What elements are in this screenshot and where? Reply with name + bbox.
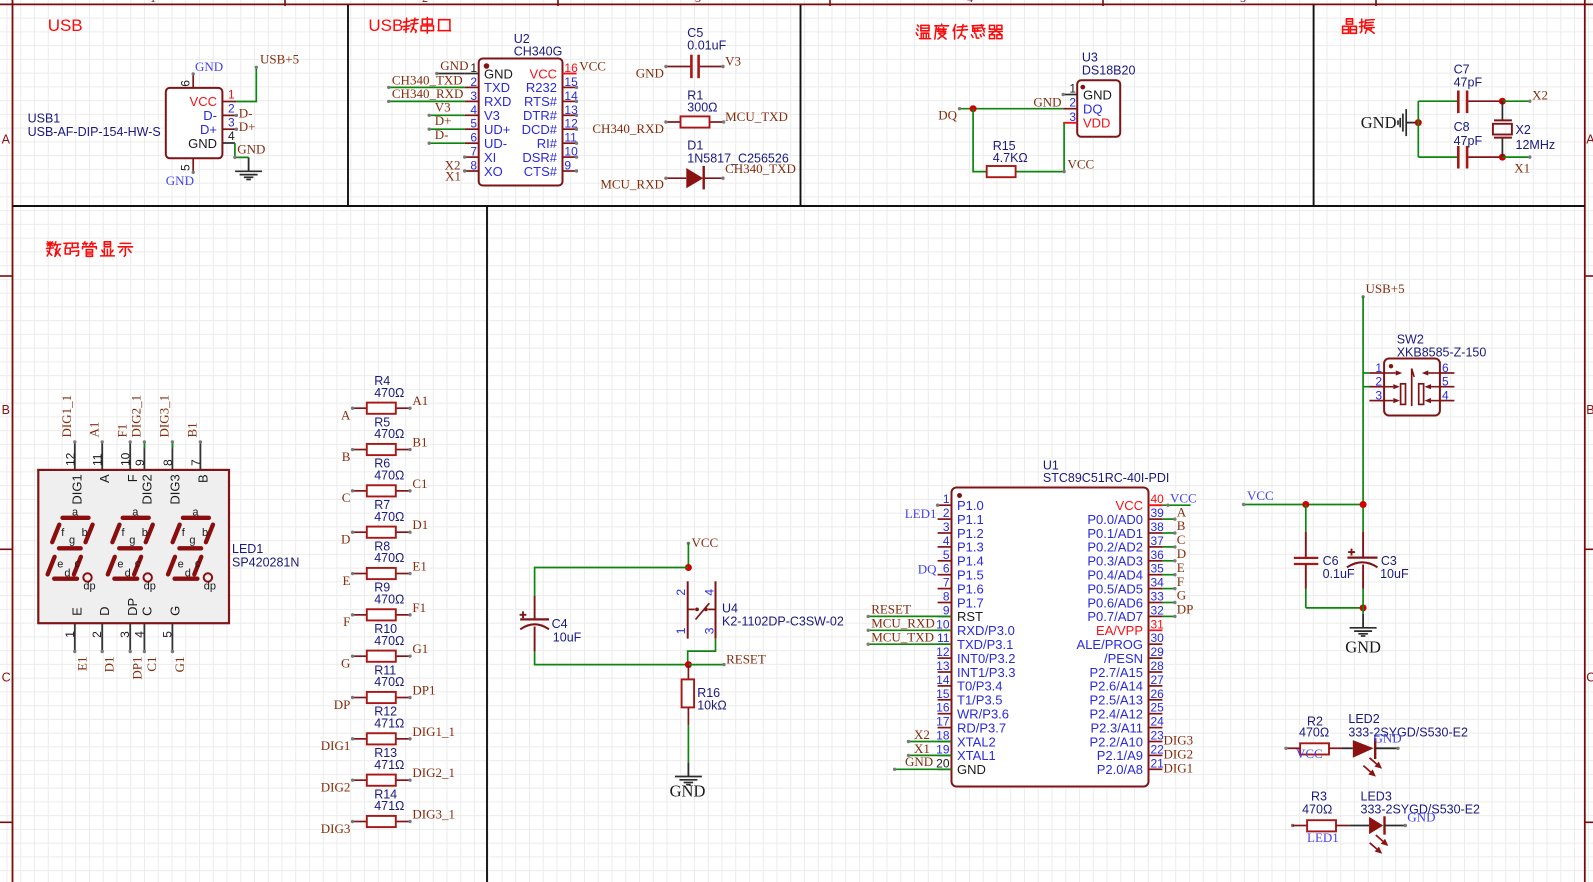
svg-text:DQ: DQ: [1083, 101, 1103, 116]
net label DIG2 at U1 pin22: [1164, 746, 1194, 761]
svg-text:e: e: [57, 558, 63, 570]
svg-text:A: A: [2, 133, 11, 147]
svg-text:32: 32: [1151, 603, 1165, 617]
svg-text:470Ω: 470Ω: [374, 675, 404, 689]
svg-text:10uF: 10uF: [1380, 567, 1409, 581]
switch SW2 XKB8585-Z-150: [1369, 333, 1486, 416]
ground symbol USB section: [235, 157, 262, 179]
svg-text:7: 7: [943, 576, 950, 590]
svg-text:4: 4: [470, 103, 477, 117]
svg-text:B: B: [2, 403, 10, 417]
svg-text:GND: GND: [195, 59, 223, 74]
svg-text:5: 5: [470, 117, 477, 131]
net labels display top pins: [59, 395, 200, 438]
svg-text:P1.2: P1.2: [957, 526, 984, 541]
net label D: [341, 531, 350, 546]
net flag GND at LED2: [1374, 730, 1402, 745]
svg-text:4: 4: [943, 534, 950, 548]
svg-text:11: 11: [91, 453, 105, 466]
svg-text:A1: A1: [412, 393, 428, 408]
svg-text:c: c: [75, 558, 81, 570]
net flag VCC above U4: [687, 535, 719, 550]
net label D-: [239, 105, 253, 120]
svg-text:DQ: DQ: [938, 107, 957, 122]
resistor R14: [351, 787, 412, 827]
svg-text:7: 7: [189, 459, 203, 466]
svg-text:34: 34: [1151, 576, 1165, 590]
svg-text:RST: RST: [957, 609, 983, 624]
svg-text:P1.7: P1.7: [957, 595, 984, 610]
svg-text:d: d: [64, 567, 70, 579]
svg-text:USB+5: USB+5: [260, 52, 299, 67]
wire X2 stub: [1502, 100, 1531, 103]
svg-text:1: 1: [674, 627, 688, 634]
net label C1: [412, 476, 427, 491]
LED LED2: [1342, 712, 1468, 777]
frame row letters: [2, 133, 1593, 685]
resistor R16: [682, 665, 727, 726]
net label CH340_TXD at D1: [725, 161, 796, 176]
capacitor C5: [664, 26, 726, 78]
svg-text:CH340_RXD: CH340_RXD: [592, 121, 664, 136]
net label DIG1_1: [412, 724, 455, 739]
svg-text:G: G: [341, 655, 350, 670]
svg-text:3: 3: [1375, 389, 1382, 403]
resistor R5: [351, 415, 412, 455]
net label X1 at U2: [445, 168, 461, 183]
svg-text:B: B: [195, 474, 210, 483]
svg-text:6: 6: [179, 80, 193, 87]
svg-text:B: B: [1586, 403, 1593, 417]
wire segment net D at U1: [1162, 559, 1176, 562]
net label VCC at U2 pin16: [579, 59, 606, 74]
wire VCC to U3 pin3: [1062, 123, 1065, 174]
svg-text:3: 3: [470, 89, 477, 103]
wire VCC at U1 pin40: [1162, 504, 1190, 507]
svg-text:26: 26: [1151, 687, 1165, 701]
svg-text:USB-AF-DIP-154-HW-S: USB-AF-DIP-154-HW-S: [28, 125, 161, 139]
svg-text:5: 5: [1442, 375, 1449, 389]
svg-text:ALE/PROG: ALE/PROG: [1077, 637, 1143, 652]
svg-text:C1: C1: [144, 657, 159, 672]
junction VCC node U4: [685, 564, 692, 571]
svg-text:10kΩ: 10kΩ: [697, 699, 727, 713]
net label CH340_RXD at R1: [592, 121, 664, 136]
net label F: [343, 614, 350, 629]
svg-text:C: C: [139, 607, 154, 616]
net flag GND bottom of USB1: [166, 171, 195, 189]
svg-text:20: 20: [936, 756, 950, 770]
svg-text:XKB8585-Z-150: XKB8585-Z-150: [1397, 345, 1487, 359]
svg-text:RESET: RESET: [871, 601, 911, 616]
svg-text:3: 3: [1069, 110, 1076, 124]
title temperature sensor: [916, 24, 1002, 39]
svg-text:C1: C1: [412, 476, 427, 491]
svg-text:GND: GND: [1033, 95, 1061, 110]
svg-text:GND: GND: [905, 754, 933, 769]
wire DQ net: [958, 107, 1063, 110]
svg-text:471Ω: 471Ω: [374, 716, 404, 730]
svg-text:P0.0/AD0: P0.0/AD0: [1087, 512, 1143, 527]
svg-text:VCC: VCC: [190, 94, 217, 109]
svg-text:9: 9: [133, 459, 147, 466]
svg-text:470Ω: 470Ω: [374, 592, 404, 606]
svg-text:7: 7: [470, 145, 477, 159]
svg-text:c: c: [135, 558, 141, 570]
svg-text:36: 36: [1151, 548, 1165, 562]
svg-text:D1: D1: [687, 139, 703, 153]
svg-text:4: 4: [967, 0, 973, 5]
net label DQ at U1 pin6: [918, 562, 937, 577]
svg-text:B1: B1: [185, 422, 200, 437]
svg-text:D: D: [1177, 546, 1186, 561]
net label MCU_TXD at R1: [725, 109, 788, 124]
svg-text:GND: GND: [636, 66, 664, 81]
svg-text:P0.3/AD3: P0.3/AD3: [1087, 554, 1143, 569]
net label D+: [239, 119, 256, 134]
svg-text:DP1: DP1: [412, 683, 435, 698]
svg-text:P2.2/A10: P2.2/A10: [1090, 734, 1144, 749]
svg-text:USB+5: USB+5: [1366, 281, 1405, 296]
svg-text:P1.5: P1.5: [957, 568, 984, 583]
svg-text:UD-: UD-: [484, 136, 507, 151]
resistor R13: [351, 746, 412, 786]
svg-text:/PESN: /PESN: [1104, 651, 1143, 666]
svg-text:3: 3: [695, 0, 701, 5]
svg-text:25: 25: [1151, 701, 1165, 715]
svg-text:C: C: [342, 490, 351, 505]
wire segment net B at U1: [1162, 531, 1176, 534]
svg-text:CH340_RXD: CH340_RXD: [392, 86, 464, 101]
svg-text:9: 9: [564, 159, 571, 173]
ground symbol right: [1350, 614, 1377, 636]
svg-text:18: 18: [936, 729, 950, 743]
net label A1: [412, 393, 428, 408]
svg-text:a: a: [192, 507, 199, 519]
svg-text:DSR#: DSR#: [522, 150, 557, 165]
junction VCC main: [1360, 501, 1367, 508]
net label DIG3 at U1 pin23: [1164, 733, 1194, 748]
wire C6 branch lower: [1306, 589, 1363, 608]
svg-text:2: 2: [90, 631, 104, 638]
junction X1 node: [1499, 154, 1506, 161]
svg-text:VCC: VCC: [1247, 488, 1274, 503]
svg-text:STC89C51RC-40I-PDI: STC89C51RC-40I-PDI: [1043, 471, 1169, 485]
svg-text:DP: DP: [125, 598, 140, 616]
resistor R7: [351, 498, 412, 538]
net label VCC at R2: [1284, 746, 1322, 761]
svg-text:B: B: [342, 449, 351, 464]
net label D- at U2: [435, 127, 449, 142]
svg-text:471Ω: 471Ω: [374, 799, 404, 813]
svg-text:2: 2: [674, 589, 688, 596]
svg-text:470Ω: 470Ω: [1302, 803, 1332, 817]
svg-text:22: 22: [1151, 742, 1165, 756]
svg-text:G: G: [167, 606, 182, 616]
svg-text:P2.1/A9: P2.1/A9: [1097, 748, 1143, 763]
IC U2 CH340G: [465, 32, 579, 186]
svg-text:3: 3: [118, 631, 132, 638]
junction VCC C6 branch: [1302, 501, 1309, 508]
svg-text:X1: X1: [1514, 160, 1530, 175]
svg-text:CTS#: CTS#: [524, 164, 558, 179]
capacitor C8: [1454, 120, 1503, 169]
net label CH340_TXD: [392, 72, 463, 87]
wire reset stub: [688, 663, 725, 666]
wire segment net E at U1: [1162, 573, 1176, 576]
svg-text:D: D: [97, 607, 112, 616]
junction DQ: [970, 105, 977, 112]
svg-text:R3: R3: [1311, 789, 1327, 803]
net label F1: [412, 600, 426, 615]
resistor R10: [351, 622, 412, 662]
wire DQ to R15: [973, 109, 987, 172]
svg-text:K2-1102DP-C3SW-02: K2-1102DP-C3SW-02: [722, 614, 844, 628]
svg-text:0.01uF: 0.01uF: [687, 38, 726, 52]
net label GND at C5: [636, 66, 664, 81]
svg-text:4: 4: [132, 631, 146, 638]
svg-text:DCD#: DCD#: [522, 122, 558, 137]
svg-text:P2.7/A15: P2.7/A15: [1090, 665, 1144, 680]
svg-text:DIG2: DIG2: [321, 779, 351, 794]
resistor R1: [664, 88, 725, 127]
svg-text:DTR#: DTR#: [523, 108, 558, 123]
svg-text:C4: C4: [552, 617, 568, 631]
wire U2 pin3: [387, 100, 465, 103]
capacitor C3 polarized: [1347, 532, 1409, 589]
svg-text:CH340_TXD: CH340_TXD: [392, 72, 463, 87]
svg-text:1: 1: [470, 61, 477, 75]
svg-text:21: 21: [1151, 756, 1165, 770]
svg-text:P2.6/A14: P2.6/A14: [1090, 679, 1144, 694]
pushbutton U4 K2-1102DP: [674, 581, 844, 638]
wire stub D+: [235, 128, 238, 131]
wire USB1 pin4 to ground: [233, 143, 248, 159]
svg-text:UD+: UD+: [484, 122, 510, 137]
svg-text:A: A: [97, 474, 112, 483]
svg-text:P0.5/AD5: P0.5/AD5: [1087, 581, 1143, 596]
net label GND at U1 pin20: [905, 754, 933, 769]
wire VCC to C4 branch: [535, 568, 689, 597]
svg-text:14: 14: [936, 673, 950, 687]
net label G1: [412, 641, 428, 656]
net label USB+5 right: [1361, 281, 1404, 298]
LED LED3: [1349, 789, 1480, 853]
svg-text:a: a: [72, 507, 79, 519]
net label DIG2_1: [412, 765, 455, 780]
svg-text:5: 5: [179, 164, 193, 171]
net label G at U1: [1177, 588, 1186, 603]
svg-text:C: C: [2, 670, 11, 684]
connector USB1: [28, 74, 237, 172]
svg-text:E1: E1: [412, 559, 426, 574]
svg-text:1: 1: [1375, 361, 1382, 375]
wire segment net A at U1: [1162, 517, 1176, 520]
svg-text:e: e: [178, 558, 184, 570]
svg-text:4.7KΩ: 4.7KΩ: [993, 151, 1028, 165]
svg-text:4: 4: [702, 589, 716, 596]
svg-text:GND: GND: [1361, 113, 1397, 132]
svg-text:16: 16: [564, 61, 578, 75]
resistor R3: [1293, 789, 1350, 831]
svg-text:D+: D+: [239, 119, 256, 134]
svg-text:10: 10: [936, 617, 950, 631]
resistor R9: [351, 581, 412, 621]
wire R16 to ground: [687, 725, 689, 762]
net label X1 at U1: [914, 741, 930, 756]
diode D1: [664, 139, 789, 190]
resistor R12: [351, 705, 412, 745]
net label D1: [412, 517, 428, 532]
svg-text:P0.7/AD7: P0.7/AD7: [1087, 609, 1143, 624]
svg-text:F: F: [1177, 574, 1184, 589]
svg-text:DP: DP: [334, 697, 351, 712]
svg-text:19: 19: [936, 742, 950, 756]
svg-text:XTAL2: XTAL2: [957, 734, 996, 749]
svg-text:2: 2: [470, 75, 477, 89]
svg-text:2: 2: [943, 506, 950, 520]
svg-text:VCC: VCC: [692, 535, 719, 550]
net label F at U1: [1177, 574, 1184, 589]
net label G: [341, 655, 350, 670]
net label GND at crystal: [1361, 113, 1397, 132]
svg-text:F: F: [343, 614, 350, 629]
junction GND node right: [1360, 604, 1367, 611]
svg-text:D-: D-: [239, 105, 253, 120]
wire VCC down: [687, 543, 689, 567]
svg-text:DIG3: DIG3: [1164, 733, 1194, 748]
svg-text:23: 23: [1151, 729, 1165, 743]
svg-text:39: 39: [1151, 506, 1165, 520]
svg-text:P0.4/AD4: P0.4/AD4: [1087, 568, 1143, 583]
svg-text:2: 2: [422, 0, 428, 5]
svg-text:USB: USB: [48, 16, 83, 35]
net label A at U1: [1177, 504, 1187, 519]
svg-text:P1.1: P1.1: [957, 512, 984, 527]
svg-text:470Ω: 470Ω: [374, 468, 404, 482]
net flag GND right: [1345, 637, 1381, 656]
svg-text:6: 6: [1442, 361, 1449, 375]
svg-text:DS18B20: DS18B20: [1082, 64, 1136, 78]
svg-text:DIG2_1: DIG2_1: [129, 395, 144, 438]
net label X2 at U2: [445, 157, 461, 172]
svg-text:MCU_TXD: MCU_TXD: [725, 109, 788, 124]
svg-text:d: d: [125, 567, 131, 579]
svg-text:XO: XO: [484, 164, 503, 179]
svg-text:D+: D+: [200, 122, 217, 137]
svg-text:8: 8: [470, 159, 477, 173]
svg-text:0.1uF: 0.1uF: [1323, 567, 1355, 581]
net labels display bottom pins: [74, 657, 187, 680]
svg-text:XTAL1: XTAL1: [957, 748, 996, 763]
svg-text:RI#: RI#: [537, 136, 558, 151]
svg-text:C8: C8: [1454, 120, 1470, 134]
svg-text:P1.3: P1.3: [957, 540, 984, 555]
junction crystal gnd: [1415, 119, 1422, 126]
svg-text:16: 16: [936, 701, 950, 715]
svg-text:G1: G1: [172, 657, 187, 673]
svg-text:P1.6: P1.6: [957, 581, 984, 596]
svg-text:T1/P3.5: T1/P3.5: [957, 693, 1003, 708]
wire VCC rail right: [1242, 503, 1363, 506]
wire U2 pin5: [428, 128, 465, 131]
svg-text:300Ω: 300Ω: [687, 101, 717, 115]
svg-text:DIG1: DIG1: [1164, 760, 1194, 775]
svg-text:P2.0/A8: P2.0/A8: [1097, 762, 1143, 777]
net label USB+5: [255, 52, 300, 70]
svg-text:5: 5: [943, 548, 950, 562]
svg-text:8: 8: [943, 590, 950, 604]
svg-text:RESET: RESET: [726, 652, 766, 667]
resistor R15: [987, 139, 1064, 177]
net label DP1: [412, 683, 435, 698]
svg-text:3: 3: [702, 627, 716, 634]
net label E at U1: [1177, 560, 1185, 575]
net label DIG1 at U1 pin21: [1164, 760, 1194, 775]
svg-text:470Ω: 470Ω: [374, 634, 404, 648]
svg-text:DIG2: DIG2: [1164, 746, 1194, 761]
net label V3 at C5: [725, 53, 741, 68]
svg-text:2: 2: [1375, 375, 1382, 389]
svg-text:2: 2: [1069, 96, 1076, 110]
net label E1: [412, 559, 426, 574]
svg-text:E: E: [1177, 560, 1185, 575]
svg-text:g: g: [69, 534, 75, 546]
svg-text:DQ: DQ: [918, 562, 937, 577]
svg-text:TXD/P3.1: TXD/P3.1: [957, 637, 1013, 652]
junction reset node: [685, 661, 692, 668]
svg-text:A1: A1: [86, 422, 101, 438]
svg-text:SP420281N: SP420281N: [232, 556, 299, 570]
net label B1: [412, 435, 427, 450]
wire crystal left rail: [1418, 101, 1457, 157]
svg-text:B1: B1: [412, 435, 427, 450]
wire C4 to reset node: [535, 652, 689, 665]
svg-text:RXD/P3.0: RXD/P3.0: [957, 623, 1015, 638]
svg-text:g: g: [129, 534, 135, 546]
svg-text:TXD: TXD: [484, 80, 510, 95]
svg-text:DIG2: DIG2: [139, 474, 154, 504]
net label DP: [334, 697, 351, 712]
net label X2: [1532, 88, 1548, 103]
svg-text:13: 13: [936, 659, 950, 673]
net label MCU_RXD at D1: [600, 177, 664, 192]
wire stub D-: [235, 114, 238, 117]
net label RESET: [726, 652, 766, 667]
resistor R8: [351, 539, 412, 579]
wire U2 pin1 GND: [435, 72, 465, 75]
wire X2 to U1 pin18: [907, 740, 952, 743]
net label MCU_RXD at U1: [871, 616, 935, 631]
svg-text:470Ω: 470Ω: [1299, 726, 1329, 740]
svg-text:E: E: [70, 607, 85, 616]
svg-text:P1.0: P1.0: [957, 498, 984, 513]
svg-text:1: 1: [943, 492, 950, 506]
svg-text:1: 1: [150, 0, 156, 5]
svg-text:12: 12: [63, 452, 77, 466]
net label LED1 at U1 pin2: [905, 506, 937, 521]
svg-text:470Ω: 470Ω: [374, 551, 404, 565]
wire X1 stub: [1502, 155, 1531, 158]
svg-text:A: A: [341, 408, 351, 423]
svg-text:31: 31: [1151, 617, 1165, 631]
svg-text:GND: GND: [1083, 87, 1112, 102]
wire U4 pin3 to reset node: [688, 639, 716, 665]
svg-text:3: 3: [228, 115, 235, 129]
svg-text:38: 38: [1151, 520, 1165, 534]
svg-text:47pF: 47pF: [1454, 134, 1483, 148]
svg-text:GND: GND: [670, 782, 706, 801]
